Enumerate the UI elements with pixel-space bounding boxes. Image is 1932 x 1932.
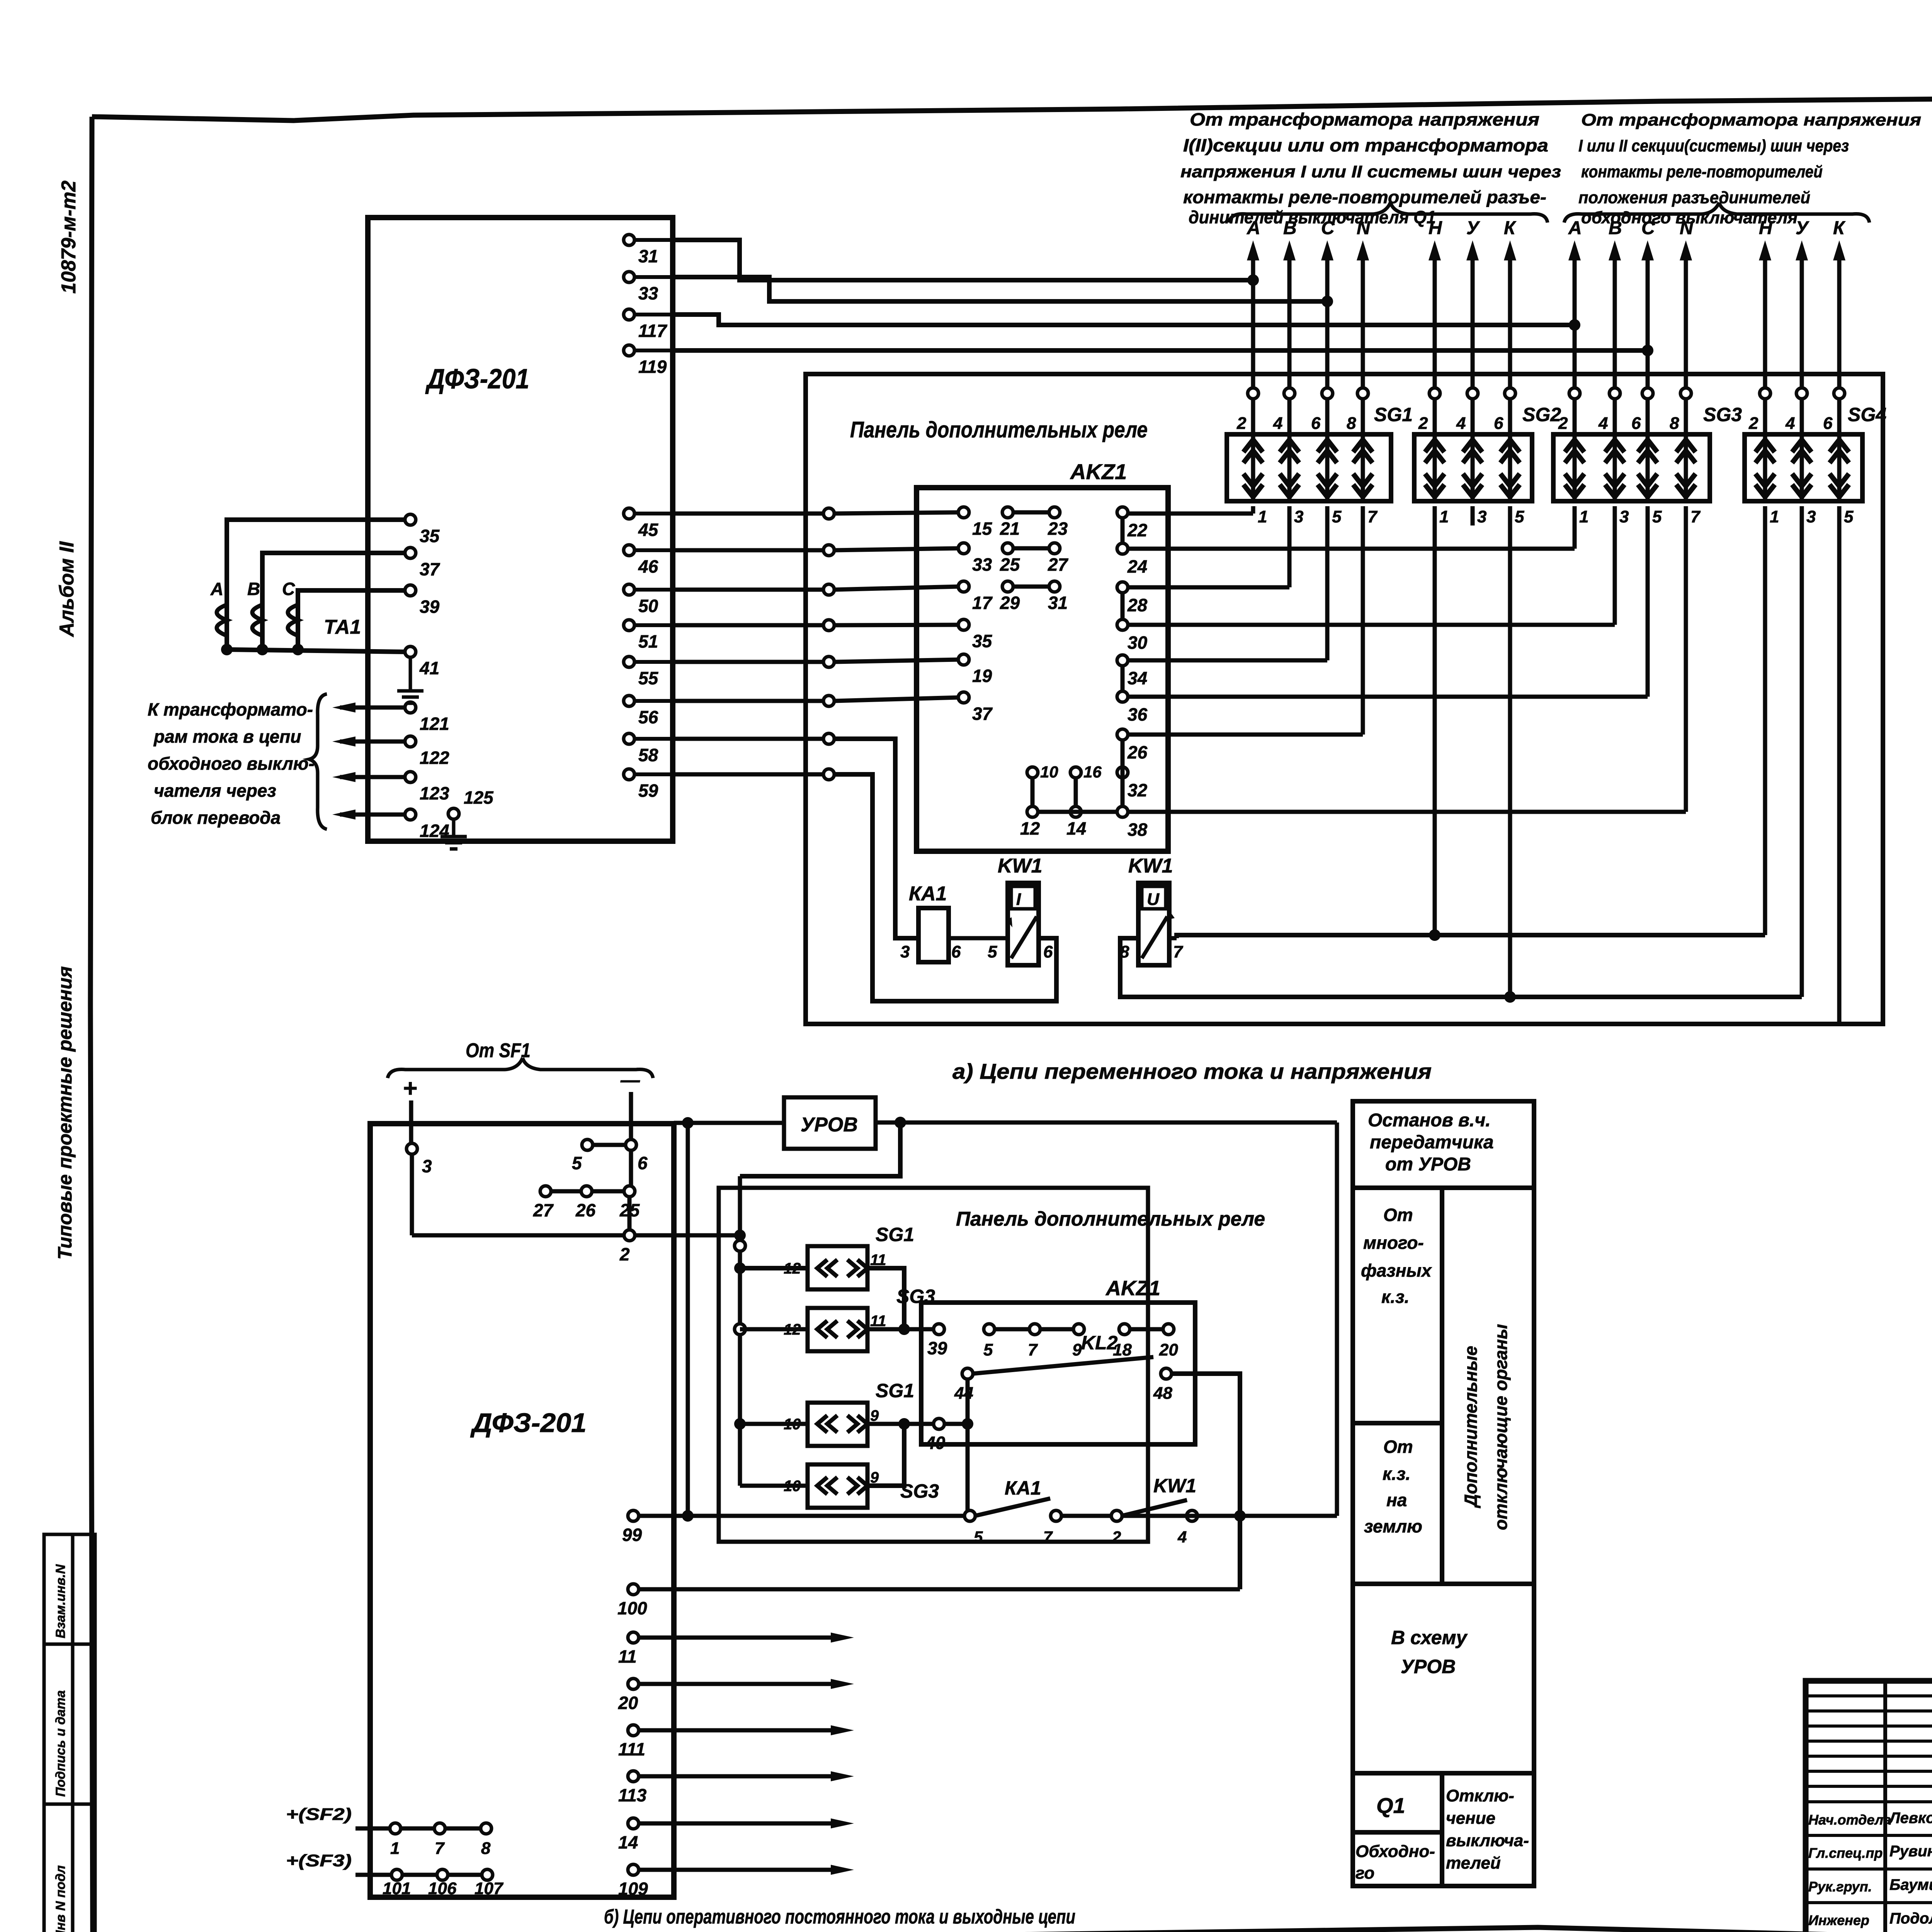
svg-text:1: 1 (1770, 507, 1779, 526)
label SG1 (1374, 404, 1413, 425)
svg-text:землю: землю (1364, 1516, 1422, 1536)
svg-text:KL2: KL2 (1081, 1332, 1118, 1354)
label SG4 (1848, 404, 1886, 425)
panel of additional relays box (lower) (719, 1188, 1148, 1542)
wire SG1 top to SG3 top output (867, 1268, 910, 1335)
wire terminal 33 to column C SG1 (673, 277, 1333, 307)
svg-text:2: 2 (619, 1244, 630, 1264)
svg-text:113: 113 (618, 1785, 647, 1805)
svg-text:Типовые проектные решения: Типовые проектные решения (54, 966, 76, 1260)
svg-text:контакты реле-повторителей: контакты реле-повторителей (1581, 162, 1823, 181)
minus sign (620, 1069, 640, 1091)
output column box Q1 (1353, 1773, 1534, 1886)
svg-text:15: 15 (972, 519, 993, 539)
terminal 35 of AKZ1 (958, 619, 993, 651)
svg-text:Обходно-: Обходно- (1355, 1842, 1435, 1861)
wire to AKZ1 terminal 19 (673, 656, 959, 667)
svg-text:SG1: SG1 (876, 1380, 914, 1401)
ground at terminal 125 (440, 819, 467, 849)
svg-text:7: 7 (1043, 1528, 1053, 1546)
svg-text:22: 22 (1127, 520, 1148, 540)
line arrow Н at x=4568 (1759, 218, 1773, 501)
terminal 11 of DFZ lower (618, 1632, 639, 1667)
svg-text:SG3: SG3 (1703, 404, 1742, 425)
svg-text:6: 6 (951, 942, 961, 961)
svg-text:Отклю-: Отклю- (1446, 1786, 1514, 1805)
svg-text:55: 55 (638, 668, 659, 688)
rotated label additional tripping organs (1461, 1324, 1511, 1530)
svg-text:6: 6 (1311, 414, 1321, 433)
terminal 123 of DFZ-201 (405, 772, 449, 803)
wire SG4 U column down (1800, 506, 1804, 997)
svg-text:25: 25 (1000, 554, 1020, 575)
margin text Albom II (56, 541, 78, 638)
svg-text:ДФЗ-201: ДФЗ-201 (470, 1408, 587, 1438)
relay KA1 (900, 883, 961, 962)
svg-text:109: 109 (618, 1879, 648, 1899)
wire terminal 119 to column C SG3 (673, 345, 1653, 356)
AKZ1 link 22-24 (1121, 517, 1125, 544)
wire with arrow from terminal 123 (332, 772, 405, 782)
svg-text:Останов в.ч.: Останов в.ч. (1368, 1110, 1491, 1131)
svg-text:8: 8 (1347, 414, 1356, 433)
svg-text:Взам.инв.N: Взам.инв.N (53, 1564, 68, 1638)
test block SG3 lower (784, 1464, 939, 1508)
svg-text:Рук.груп.: Рук.груп. (1808, 1879, 1872, 1895)
wire UROV right branch down to contact row (1335, 1122, 1339, 1516)
svg-text:Панель дополнительных реле: Панель дополнительных реле (956, 1208, 1265, 1230)
current transformer TA1 coil C (288, 605, 298, 636)
terminals 27 26 25 (533, 1186, 640, 1220)
svg-text:К: К (1504, 218, 1517, 238)
output column box multi-phase (1353, 1188, 1534, 1584)
line arrow А at x=4075 (1568, 218, 1582, 501)
terminal 37 of AKZ1 (958, 692, 993, 724)
svg-text:31: 31 (1048, 593, 1068, 613)
wire DFZ to UROV (674, 1117, 784, 1129)
title block left signature grid (1806, 1681, 1932, 1932)
svg-text:46: 46 (638, 556, 658, 577)
plus sign (403, 1074, 417, 1102)
svg-text:7: 7 (1028, 1340, 1038, 1359)
svg-text:107: 107 (474, 1879, 504, 1898)
contact KA1 lower (964, 1477, 1061, 1546)
svg-text:5: 5 (572, 1153, 582, 1173)
AKZ1 link 28-30 (1121, 592, 1125, 620)
svg-text:чение: чение (1446, 1809, 1495, 1828)
wire terminal 3 down to row 2 (412, 1154, 624, 1235)
wire from terminal 37 to phase B coil (262, 553, 405, 650)
terminal 38 of AKZ1 (1117, 806, 1148, 840)
ground at terminal 41 (397, 657, 423, 703)
contact KL2 (954, 1332, 1172, 1403)
svg-text:U: U (1147, 890, 1160, 909)
svg-text:41: 41 (419, 658, 439, 678)
svg-text:А: А (1568, 218, 1582, 238)
line arrow Н at x=3713 (1429, 218, 1442, 501)
test block SG2 (1414, 414, 1532, 526)
AKZ1 internal bottom wire (1037, 810, 1117, 814)
wire AKZ1 22 to SG column (1128, 506, 1253, 514)
label plus SF3 (286, 1851, 352, 1870)
svg-text:7: 7 (1690, 507, 1701, 526)
wire SG2 U stub (1471, 506, 1475, 526)
svg-text:телей: телей (1446, 1854, 1501, 1872)
svg-text:7: 7 (1173, 942, 1184, 961)
terminal 5 of DFZ lower (572, 1139, 593, 1173)
wire AKZ1 30 to SG column (1128, 506, 1615, 625)
terminal 50 of DFZ-201 (624, 584, 673, 616)
svg-text:1: 1 (1579, 507, 1588, 526)
svg-text:50: 50 (638, 596, 658, 616)
wire feed to SG3 top block (740, 1327, 808, 1332)
wire terminal 117 to column A SG3 (673, 315, 1580, 331)
svg-text:7: 7 (1367, 507, 1378, 526)
terminal 30 of AKZ1 (1117, 619, 1148, 653)
wire AKZ1 34 to SG column (1128, 506, 1327, 660)
junction circle on feed column 2 (735, 1324, 745, 1335)
terminal 33 of AKZ1 (958, 543, 992, 575)
svg-text:33: 33 (972, 554, 992, 575)
svg-text:106: 106 (428, 1879, 457, 1898)
svg-text:SG1: SG1 (876, 1224, 914, 1245)
line arrow С at x=4264 (1641, 218, 1655, 501)
test block SG3 (1553, 414, 1710, 526)
svg-text:125: 125 (464, 787, 494, 808)
terminal 33 of DFZ-201 (624, 272, 673, 303)
wire with arrow from terminal 14 (638, 1818, 854, 1828)
svg-text:От трансформатора напряжения: От трансформатора напряжения (1190, 109, 1539, 129)
wire AKZ1 38 to SG column (1128, 506, 1686, 812)
svg-text:117: 117 (638, 321, 668, 341)
terminal 58 of DFZ-201 (624, 733, 673, 765)
svg-text:17: 17 (972, 593, 993, 613)
wire KL2 44 down to contact row (966, 1379, 970, 1516)
terminal 51 of DFZ-201 (624, 620, 673, 651)
terminal 17 of AKZ1 (958, 581, 993, 613)
svg-text:4: 4 (1785, 414, 1795, 433)
svg-text:26: 26 (1127, 742, 1148, 762)
terminal 32 of AKZ1 (1117, 767, 1148, 800)
svg-text:5: 5 (1652, 507, 1662, 526)
svg-text:7: 7 (435, 1839, 445, 1858)
wire KW1-U pin 8 bracket (1120, 938, 1802, 1003)
svg-text:—: — (620, 1069, 640, 1091)
svg-text:В: В (247, 579, 260, 599)
svg-text:AKZ1: AKZ1 (1105, 1277, 1160, 1300)
svg-text:5: 5 (974, 1528, 983, 1546)
svg-text:16: 16 (1083, 763, 1102, 781)
terminal 109 of DFZ lower (618, 1864, 648, 1899)
svg-text:б) Цепи оперативного постоян: б) Цепи оперативного постоянного тока и … (604, 1906, 1075, 1928)
svg-text:отключающие органы: отключающие органы (1491, 1324, 1511, 1530)
wire to AKZ1 terminal 17 (673, 584, 959, 595)
AKZ1 lower contact pair 18-20 (1113, 1324, 1178, 1359)
svg-text:Гл.спец.пр: Гл.спец.пр (1808, 1845, 1883, 1861)
terminal 35 of DFZ-201 (405, 514, 440, 546)
svg-text:2: 2 (1418, 414, 1428, 433)
wire between contacts (1061, 1514, 1112, 1518)
wire 6 down to 25 (629, 1150, 633, 1186)
svg-text:5: 5 (988, 942, 997, 961)
svg-text:21: 21 (1000, 519, 1020, 539)
svg-text:111: 111 (618, 1739, 645, 1759)
svg-text:5: 5 (1515, 507, 1524, 526)
svg-text:1: 1 (1258, 507, 1267, 526)
svg-text:Левкович: Левкович (1888, 1810, 1932, 1827)
svg-text:20: 20 (618, 1693, 638, 1713)
svg-text:48: 48 (1153, 1384, 1172, 1403)
svg-text:KW1: KW1 (1128, 855, 1173, 877)
svg-text:У: У (1796, 218, 1810, 238)
AKZ1 link 26-32-38 (1121, 740, 1125, 807)
svg-text:34: 34 (1128, 668, 1147, 688)
terminal 14 of DFZ lower (618, 1818, 639, 1852)
terminal 15 of AKZ1 (958, 507, 993, 539)
line arrow У at x=3811 (1466, 218, 1480, 501)
terminal 36 of AKZ1 (1117, 691, 1148, 724)
svg-text:а) Цепи переменного тока и: а) Цепи переменного тока и напряжения (952, 1059, 1432, 1083)
svg-text:37: 37 (420, 559, 440, 579)
terminal 46 of DFZ-201 (624, 545, 673, 577)
wire to AKZ1 terminal 33 (673, 545, 959, 556)
margin stamp boxes (44, 1534, 95, 1932)
terminal 37 of DFZ-201 (405, 548, 440, 579)
svg-text:38: 38 (1128, 820, 1148, 840)
wire KA1 to KW1-I (949, 938, 1053, 961)
svg-text:14: 14 (618, 1832, 638, 1852)
svg-text:100: 100 (617, 1598, 647, 1618)
wire and terminals 1 7 8 (355, 1823, 492, 1858)
svg-text:+: + (403, 1074, 417, 1102)
wire terminal 58 to relay KA1 (673, 733, 918, 938)
signature row names (1808, 1810, 1932, 1928)
wire and terminals 101 106 107 (355, 1869, 504, 1898)
svg-text:к.з.: к.з. (1383, 1464, 1410, 1484)
wire 25 down to 2 (628, 1196, 632, 1230)
caption a) AC circuits (952, 1059, 1432, 1083)
wire SG2 K column down (1508, 506, 1512, 997)
AKZ1 lower contact row 5-7-9 (983, 1324, 1084, 1359)
label B phase (247, 579, 260, 599)
svg-text:Дополнительные: Дополнительные (1461, 1346, 1481, 1509)
terminal 125 of DFZ-201 (448, 787, 494, 819)
svg-text:11: 11 (618, 1646, 637, 1667)
brace for transformer text block (309, 694, 327, 829)
svg-text:5: 5 (1844, 507, 1854, 526)
svg-text:10: 10 (1040, 763, 1058, 781)
svg-text:35: 35 (420, 526, 440, 546)
label TA1 (324, 616, 361, 638)
svg-text:6: 6 (1823, 414, 1833, 433)
line arrow К at x=4760 (1833, 218, 1846, 501)
terminal 41 of DFZ-201 (405, 646, 439, 678)
line arrow N at x=4363 (1680, 218, 1694, 501)
wire feed to SG1 top block (734, 1262, 808, 1274)
svg-text:6: 6 (638, 1153, 648, 1173)
svg-text:KW1: KW1 (998, 855, 1043, 877)
AKZ1 contact pair 29-31 (1000, 581, 1068, 613)
svg-text:AKZ1: AKZ1 (1070, 459, 1127, 484)
wire terminal 5 to 6 (592, 1143, 626, 1147)
svg-text:К трансформато-: К трансформато- (148, 699, 313, 719)
terminal 119 of DFZ-201 (624, 345, 673, 377)
wire 2 to panel junction (634, 1230, 746, 1241)
label panel dopolnitelnyh rele (upper) (850, 417, 1148, 442)
svg-text:39: 39 (927, 1338, 947, 1358)
TA1 common bus wire to terminal 41 (221, 644, 405, 655)
terminal 111 of DFZ lower (618, 1725, 645, 1759)
terminal 99 of DFZ lower (622, 1510, 642, 1545)
svg-text:30: 30 (1128, 633, 1148, 653)
terminal 26 of AKZ1 (1117, 729, 1148, 762)
line arrow N at x=3527 (1357, 218, 1371, 501)
svg-text:УРОВ: УРОВ (1401, 1656, 1456, 1677)
svg-text:динителей выключателя Q1: динителей выключателя Q1 (1189, 207, 1436, 227)
wire SG4 K column down (1837, 506, 1842, 1024)
terminal 2 of DFZ lower (619, 1230, 635, 1264)
relay set AKZ1 box (lower) (921, 1303, 1195, 1444)
svg-text:Q1: Q1 (1376, 1793, 1405, 1818)
wire with arrow from terminal 122 (332, 736, 405, 747)
terminal 40 of AKZ1 lower (925, 1418, 946, 1453)
svg-text:23: 23 (1048, 519, 1068, 539)
svg-text:рам тока в цепи: рам тока в цепи (153, 726, 301, 747)
svg-text:ДФЗ-201: ДФЗ-201 (425, 364, 529, 395)
line arrow С at x=3435 (1321, 218, 1335, 501)
label C phase (282, 579, 295, 599)
svg-text:Баумштейн: Баумштейн (1889, 1876, 1932, 1893)
svg-text:27: 27 (1048, 554, 1069, 575)
svg-text:2: 2 (1748, 414, 1759, 433)
svg-text:контакты реле-повторителей раз: контакты реле-повторителей разъе- (1183, 187, 1546, 207)
title block outer frame (1806, 1681, 1932, 1932)
wire UROV branch to SG feed column (740, 1122, 900, 1176)
wire contact row KA1 KW1 (638, 1514, 965, 1518)
svg-text:От: От (1383, 1437, 1413, 1457)
svg-text:Нач.отдела: Нач.отдела (1808, 1812, 1891, 1828)
svg-text:Инженер: Инженер (1808, 1912, 1869, 1928)
contact KW1 lower (1111, 1475, 1197, 1546)
svg-text:К: К (1833, 218, 1846, 238)
panel of additional relays box (upper) (806, 374, 1883, 1024)
svg-text:I(II)секции или от трансформат: I(II)секции или от трансформатора (1183, 135, 1548, 155)
svg-text:51: 51 (638, 631, 658, 651)
svg-text:выключа-: выключа- (1446, 1831, 1529, 1850)
svg-text:положения разъединителей: положения разъединителей (1578, 188, 1810, 207)
svg-text:3: 3 (1477, 507, 1486, 526)
label DFZ-201 lower (470, 1408, 587, 1438)
svg-text:2: 2 (1236, 414, 1247, 433)
label A phase (210, 579, 223, 599)
svg-text:56: 56 (638, 707, 658, 727)
brace group 1 (1229, 202, 1548, 223)
svg-text:3: 3 (1294, 507, 1303, 526)
svg-text:Подпись и дата: Подпись и дата (53, 1690, 68, 1797)
svg-text:35: 35 (972, 631, 993, 651)
svg-text:59: 59 (638, 781, 658, 801)
wire with arrow from terminal 121 (332, 702, 405, 713)
output column box Ostanov (1353, 1101, 1534, 1188)
svg-text:36: 36 (1128, 704, 1148, 724)
svg-text:3: 3 (1619, 507, 1629, 526)
svg-text:КА1: КА1 (909, 883, 947, 905)
terminal 100 of DFZ lower (617, 1584, 647, 1618)
svg-text:4: 4 (1177, 1528, 1187, 1546)
svg-text:на: на (1386, 1490, 1407, 1510)
terminal 55 of DFZ-201 (624, 656, 673, 688)
wire contact row to right columns (1122, 1514, 1337, 1518)
svg-text:122: 122 (420, 748, 449, 768)
terminal 22 of AKZ1 (1117, 507, 1148, 540)
label AKZ1 (upper) (1070, 459, 1127, 484)
svg-text:14: 14 (1066, 818, 1086, 838)
wire AKZ1 24 to SG column (1128, 506, 1575, 549)
svg-text:6: 6 (1043, 942, 1053, 961)
terminal 24 of AKZ1 (1117, 543, 1147, 577)
svg-text:9: 9 (870, 1407, 879, 1424)
current transformer TA1 coil B (252, 605, 262, 636)
svg-text:39: 39 (420, 597, 440, 617)
terminal 56 of DFZ-201 (624, 696, 673, 727)
wire to AKZ1 terminal 15 (673, 508, 959, 519)
wire from terminal 39 to phase C coil (298, 590, 405, 650)
wire AKZ1 36 to SG column (1128, 506, 1648, 697)
svg-text:+(SF3): +(SF3) (286, 1851, 352, 1870)
svg-text:44: 44 (954, 1384, 973, 1403)
svg-text:8: 8 (481, 1839, 491, 1858)
svg-text:к.з.: к.з. (1381, 1287, 1409, 1307)
svg-text:33: 33 (638, 283, 658, 303)
wire SG2 H column down (1433, 506, 1437, 935)
test block SG1 lower (784, 1380, 914, 1446)
svg-text:31: 31 (638, 246, 658, 266)
svg-text:121: 121 (420, 714, 449, 734)
label plus SF2 (286, 1805, 352, 1824)
terminal 19 of AKZ1 (958, 654, 992, 686)
AKZ1 contact pair 16-14 (1066, 763, 1102, 838)
svg-text:Инв N подл: Инв N подл (53, 1865, 68, 1932)
wire SG4 H column down (1763, 506, 1767, 935)
wire terminal 100 to column (638, 1587, 1240, 1592)
wire SG3 bottom to SG1 bottom output (867, 1418, 910, 1486)
svg-text:3: 3 (422, 1156, 432, 1176)
svg-text:99: 99 (622, 1525, 642, 1545)
wire with arrow from terminal 20 (638, 1679, 854, 1689)
svg-text:блок перевода: блок перевода (151, 808, 281, 828)
terminal 45 of DFZ-201 (624, 508, 673, 540)
svg-text:го: го (1355, 1864, 1374, 1883)
vertical SG feed column (738, 1176, 742, 1486)
wire plus bus down to contact row (682, 1123, 694, 1522)
svg-text:6: 6 (1494, 414, 1503, 433)
output column box to UROV scheme (1353, 1584, 1534, 1773)
wire plus to terminal 3 (409, 1100, 413, 1144)
svg-text:37: 37 (972, 704, 993, 724)
svg-text:В схему: В схему (1391, 1627, 1468, 1648)
text block from voltage transformer 2 (1578, 111, 1921, 227)
svg-text:3: 3 (1806, 507, 1816, 526)
svg-text:много-: много- (1363, 1233, 1424, 1253)
UROV block (784, 1097, 876, 1149)
terminal 39 of AKZ1 lower (927, 1324, 947, 1358)
svg-text:KW1: KW1 (1153, 1475, 1196, 1497)
terminal 39 of DFZ-201 (405, 585, 440, 617)
svg-text:УРОВ: УРОВ (801, 1114, 858, 1136)
svg-text:58: 58 (638, 745, 658, 765)
wire with arrow from terminal 109 (638, 1865, 854, 1875)
svg-text:6: 6 (1631, 414, 1641, 433)
